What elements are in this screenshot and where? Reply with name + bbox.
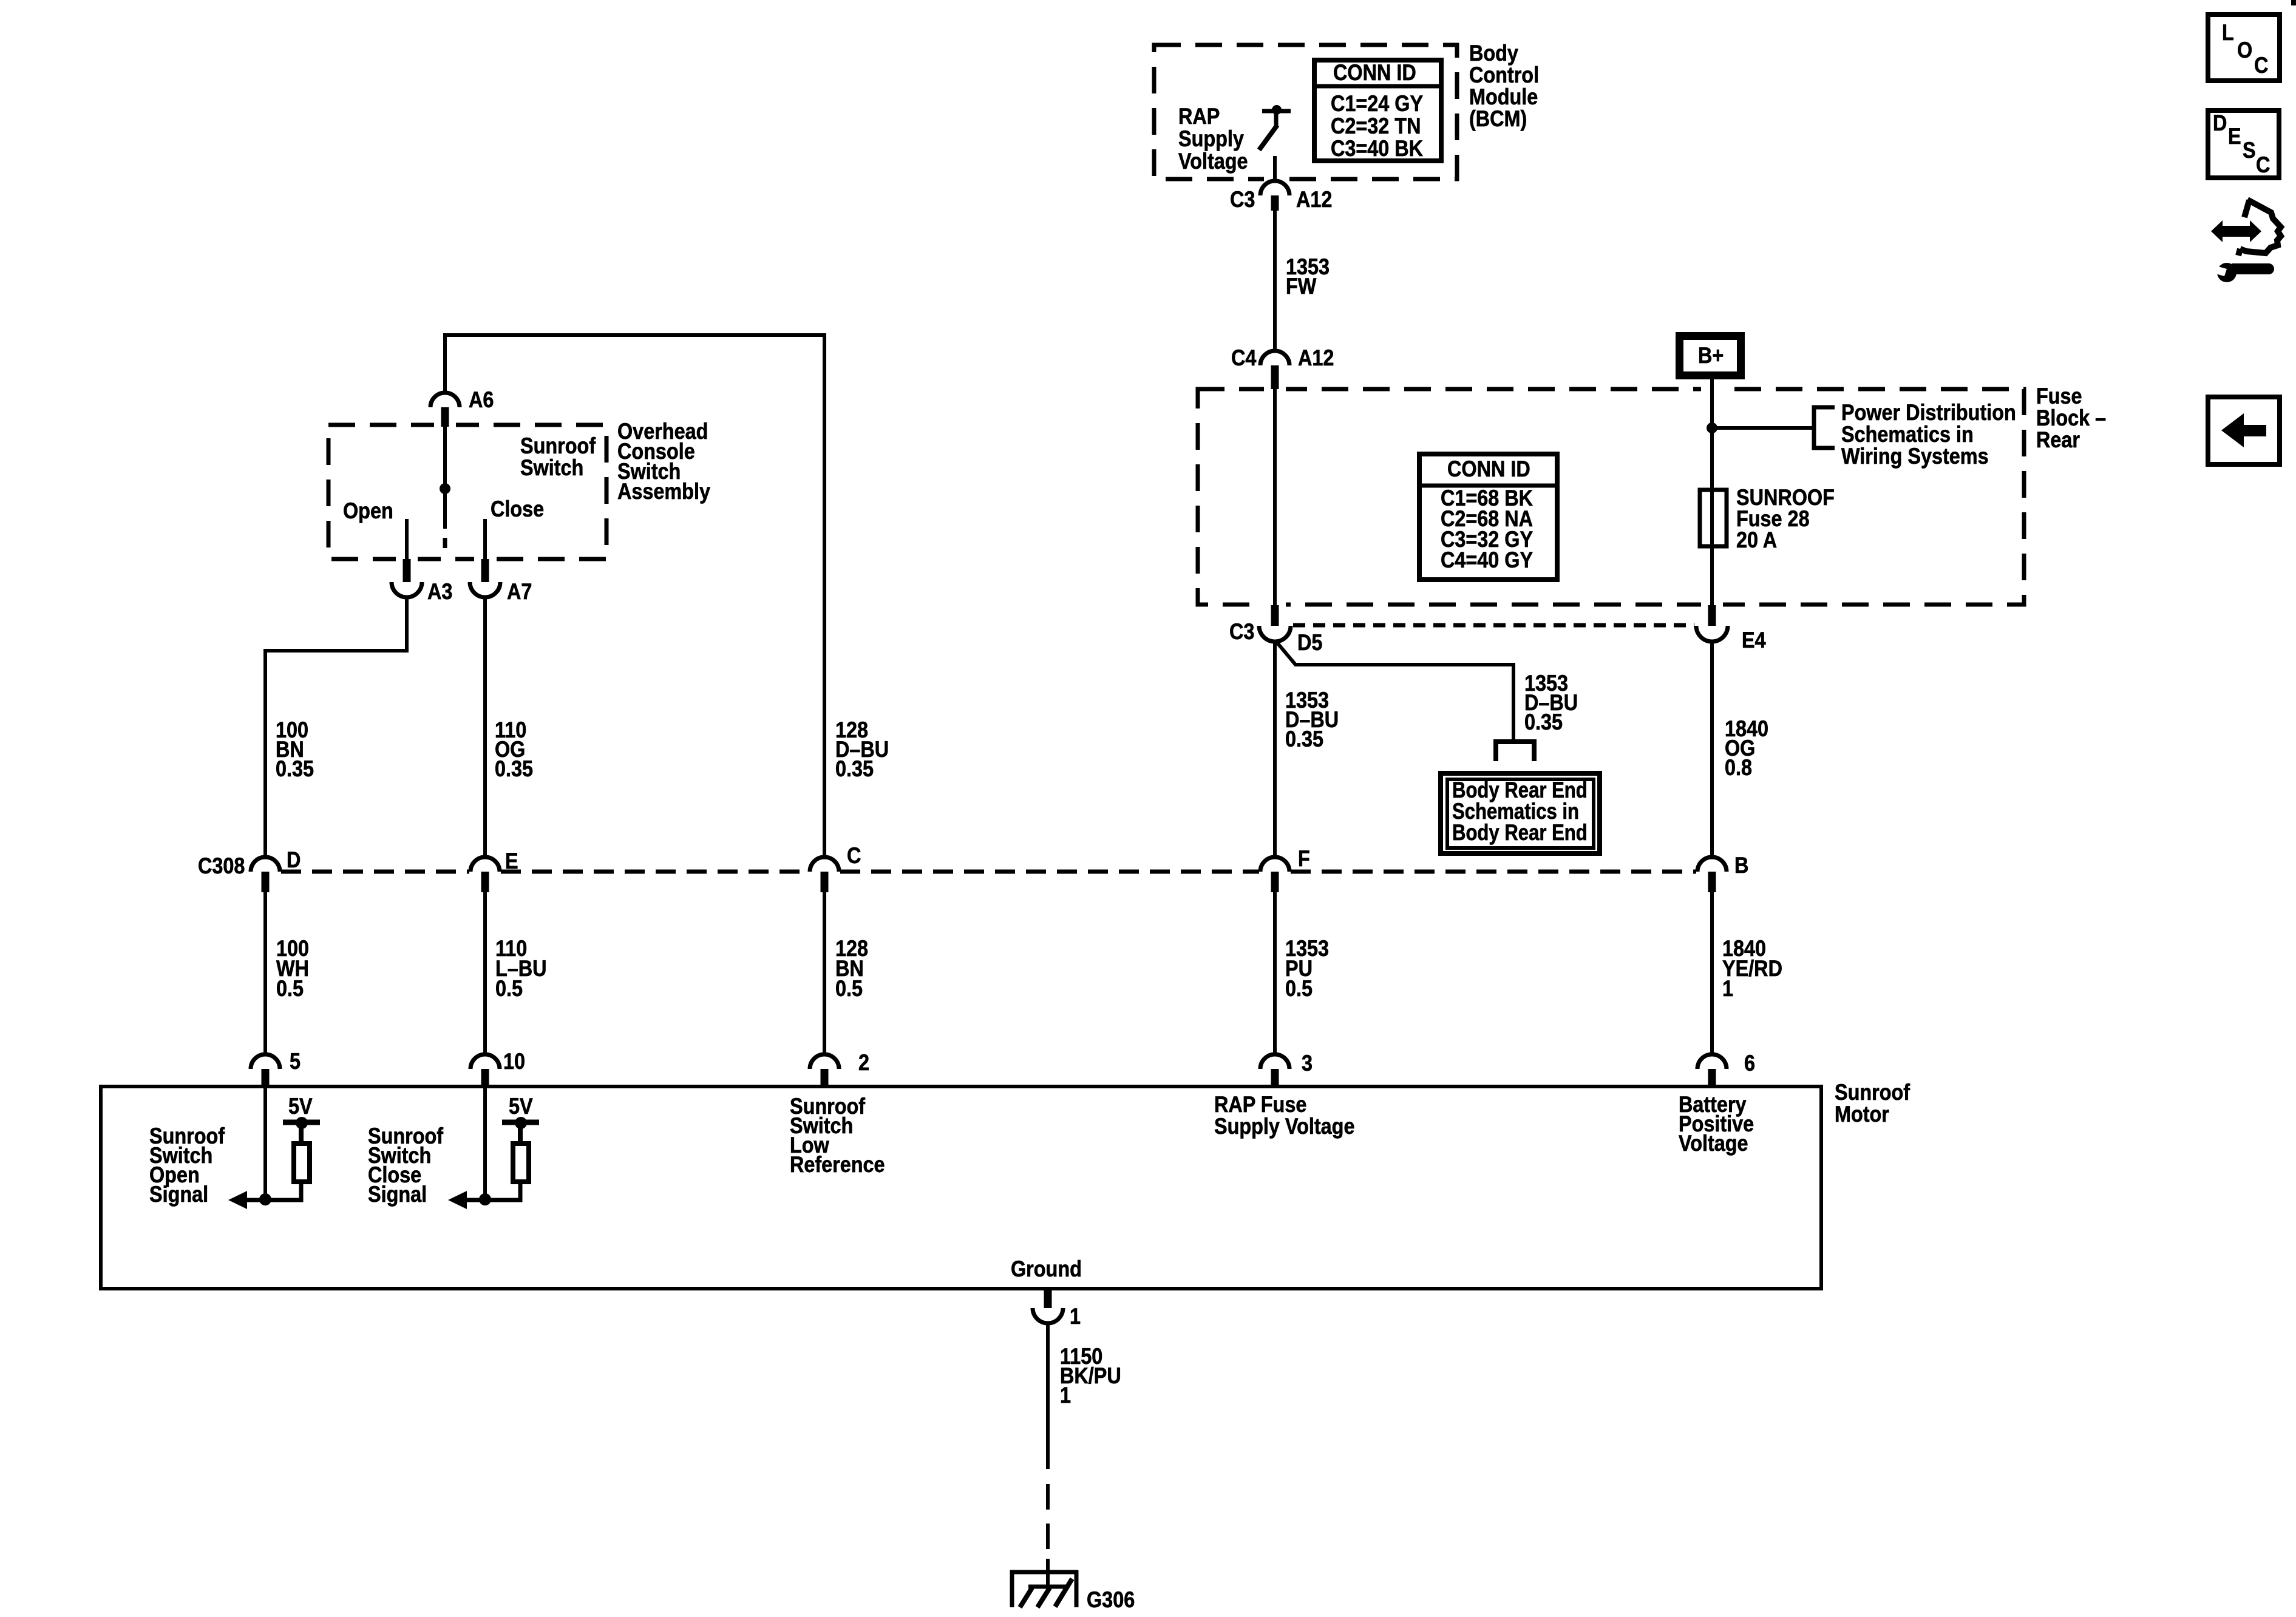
label A12 at BCM	[1296, 189, 1332, 209]
label C3 at fuse block bottom	[1229, 622, 1254, 642]
label wire 128 D-BU 0.35	[835, 720, 889, 779]
label 5V open	[288, 1096, 313, 1116]
open signal pull-up resistor R1	[294, 1144, 310, 1182]
white gap at BCM box edge crossing	[1264, 175, 1286, 183]
close signal pull-up wire	[485, 1181, 520, 1200]
label sunroof fuse 28 20A	[1736, 487, 1835, 551]
label wire 1353 D-BU 0.35	[1285, 691, 1339, 749]
wire C308 D to sunroof motor pin 5 (100 WH)	[263, 892, 267, 1054]
label wire 1353 PU 0.5	[1285, 938, 1329, 998]
connector A3	[403, 559, 411, 582]
label pin 3	[1302, 1053, 1313, 1073]
fuse block connector E4	[1708, 605, 1716, 626]
back arrow	[2221, 413, 2266, 447]
sunroof motor ground pin 1 connector	[1044, 1289, 1052, 1308]
label A3	[427, 581, 452, 602]
ground wire 1150 BK/PU solid part	[1046, 1323, 1050, 1469]
label overhead console switch assembly	[617, 421, 710, 501]
label A6	[469, 390, 494, 410]
wire fuse block D5 to C308 F (1353 D-BU)	[1273, 641, 1277, 856]
label body control module BCM	[1469, 42, 1539, 130]
DESC icon box	[2208, 110, 2279, 178]
label open	[343, 501, 393, 521]
label RAP fuse supply voltage	[1214, 1094, 1354, 1137]
label RAP supply voltage	[1178, 105, 1248, 172]
diagnostic tool icon double arrow	[2211, 220, 2261, 242]
fuse block - rear dashed box	[1198, 389, 2024, 605]
overhead console switch assembly dashed box	[328, 425, 606, 559]
label wire 1353 FW	[1286, 257, 1330, 296]
connector C308 dashed line	[281, 870, 469, 874]
label wire 100 WH 0.5	[276, 938, 309, 998]
wire fuse block E4 to C308 B (1840 OG)	[1710, 641, 1714, 856]
label cavity E	[505, 851, 518, 871]
power distribution reference bracket	[1814, 407, 1835, 448]
sunroof switch pivot dot	[440, 483, 450, 494]
net split symbol	[1496, 742, 1534, 761]
fuse 28 SUNROOF 20A	[1700, 490, 1727, 546]
label C4 at fuse block	[1231, 348, 1256, 368]
sunroof motor pin 3 connector	[1260, 1054, 1289, 1069]
B+ power feed box	[1680, 336, 1741, 376]
sunroof motor pin 5 connector	[251, 1054, 280, 1069]
C308 cavity B connector	[1697, 857, 1727, 872]
open signal arrow	[243, 1198, 265, 1202]
diagnostic tool icon car outline	[2244, 200, 2249, 217]
sunroof motor pin 2 connector	[810, 1054, 839, 1069]
open signal pull-up wire	[265, 1181, 301, 1200]
label body rear end schematics	[1452, 779, 1588, 843]
sunroof switch Close contact stub	[483, 519, 487, 559]
sunroof switch Open contact stub	[405, 519, 409, 559]
sunroof motor pin 10 connector	[470, 1054, 500, 1069]
C308 cavity E connector	[470, 857, 500, 872]
close signal 5V rail	[518, 1124, 523, 1144]
wire from sunroof switch A6 up and over to C308 cavity C (128 circuit)	[445, 335, 824, 856]
open signal 5V rail	[299, 1124, 304, 1144]
ground wire dashed part	[1046, 1484, 1050, 1510]
label cavity C	[847, 846, 861, 866]
C308 cavity C connector	[810, 857, 839, 872]
label sunroof switch	[520, 435, 596, 479]
label sunroof switch open signal	[149, 1127, 225, 1204]
close signal pull-up resistor R2	[513, 1144, 529, 1182]
label A12 at fuse block	[1298, 348, 1334, 368]
fuse block conn id header	[1447, 459, 1530, 479]
LOC icon letter O	[2237, 40, 2252, 60]
BCM connector C3 pin A12	[1260, 181, 1289, 195]
label battery positive voltage	[1679, 1095, 1754, 1153]
label pin 2	[858, 1053, 869, 1073]
back arrow icon box	[2208, 397, 2280, 464]
label sunroof switch low reference	[790, 1097, 885, 1175]
wire BCM A12 to fuse block C4 A12 (1353 FW)	[1273, 211, 1277, 351]
label D5	[1297, 632, 1322, 653]
fuse block C4 connector pin A12	[1260, 351, 1289, 365]
BCM conn id header	[1333, 63, 1416, 83]
label sunroof switch close signal	[368, 1127, 443, 1204]
DESC icon letter S	[2243, 140, 2256, 160]
BCM harness connector dotted line	[1293, 623, 1694, 628]
label pin 10	[503, 1051, 525, 1071]
label C3 at BCM	[1230, 189, 1255, 209]
label G306	[1087, 1590, 1135, 1610]
label C308	[198, 856, 245, 876]
white gaps at fuse block edge crossings	[1264, 385, 1286, 393]
label pin 6	[1744, 1053, 1755, 1073]
wire switch to BCM connector C3	[1273, 156, 1277, 181]
label wire 1150 BK/PU 1	[1060, 1347, 1121, 1405]
label wire 110 L-BU 0.5	[495, 938, 547, 998]
label ground	[1011, 1259, 1082, 1279]
wire C308 F to sunroof motor pin 3 (1353 PU)	[1273, 892, 1277, 1054]
DESC icon letter C	[2256, 155, 2270, 175]
label B+	[1698, 345, 1724, 365]
fuse block CONN ID table box	[1419, 454, 1557, 580]
RAP supply voltage switch dot	[1272, 105, 1282, 115]
sunroof motor box	[101, 1086, 1821, 1289]
wire C308 B to sunroof motor pin 6 (1840 YE/RD)	[1710, 892, 1714, 1054]
fuse block connector C3 cavity D5	[1271, 605, 1279, 626]
wire junction to power distribution reference	[1712, 426, 1814, 430]
label wire 128 BN 0.5	[835, 938, 868, 998]
label sunroof motor	[1835, 1082, 1910, 1125]
label fuse block - rear	[2036, 385, 2106, 451]
label cavity F	[1298, 849, 1310, 869]
close signal arrow	[463, 1198, 485, 1202]
diagnostic tool icon wrench	[2217, 263, 2237, 282]
C308 cavity F connector	[1260, 857, 1289, 872]
pin 5 junction dot	[259, 1193, 271, 1205]
pin 5 internal wire	[263, 1086, 267, 1199]
label power distribution schematics	[1841, 402, 2016, 467]
junction dot on B+ feed	[1707, 422, 1717, 433]
BCM conn id rows	[1331, 92, 1423, 160]
connector A6 (overhead console switch assembly)	[430, 393, 460, 407]
label 5V close	[509, 1096, 533, 1116]
sunroof switch blade dash (neutral position)	[443, 538, 447, 548]
label E4	[1742, 630, 1766, 650]
LOC icon box	[2208, 15, 2280, 81]
label wire 110 OG 0.35	[495, 720, 533, 779]
label cavity B	[1734, 855, 1748, 875]
DESC icon letter D	[2213, 113, 2227, 133]
wire inside fuse block 1353	[1273, 389, 1277, 605]
LOC icon letter C	[2254, 55, 2268, 75]
branch wire 1353 D-BU to body rear end	[1277, 642, 1513, 741]
label wire 1840 OG 0.8	[1725, 719, 1768, 778]
pin 10 internal wire	[483, 1086, 487, 1199]
open signal 5V dot	[296, 1117, 308, 1129]
label cavity D	[287, 850, 301, 870]
fuse block conn id rows	[1441, 488, 1533, 571]
wire B+ to fuse and connector E4	[1710, 379, 1714, 605]
sunroof switch common blade wire	[443, 427, 447, 529]
close signal 5V dot	[515, 1117, 527, 1129]
wire C308 E to sunroof motor pin 10 (110 L-BU)	[483, 892, 487, 1054]
page corner mark	[2291, 0, 2296, 5]
body rear end schematics reference box	[1441, 773, 1600, 853]
RAP supply voltage switch stub	[1274, 112, 1279, 126]
white gaps at switch box edge crossings	[434, 421, 456, 429]
RAP supply voltage switch blade	[1259, 125, 1277, 150]
sunroof motor pin 6 connector	[1697, 1054, 1727, 1069]
label pin 1	[1070, 1306, 1081, 1326]
ground G306 symbol	[1010, 1570, 1078, 1575]
RAP supply voltage switch bar	[1262, 109, 1291, 114]
label wire 1840 YE/RD 1	[1722, 938, 1782, 998]
label pin 5	[290, 1051, 301, 1071]
label A7	[507, 581, 532, 602]
pin 10 junction dot	[479, 1193, 491, 1205]
label wire 100 BN 0.35	[276, 720, 314, 779]
body control module dashed box	[1154, 45, 1457, 179]
label close	[491, 499, 544, 519]
C308 cavity D connector	[251, 857, 280, 872]
wire A3 to C308 cavity D (100 circuit)	[265, 597, 407, 856]
LOC icon letter L	[2222, 22, 2234, 42]
DESC icon letter E	[2228, 126, 2241, 146]
label branch wire 1353 D-BU 0.35	[1524, 674, 1578, 732]
connector A7	[481, 559, 489, 582]
BCM CONN ID table box	[1314, 60, 1441, 161]
wire C308 C to sunroof motor pin 2 (128 BN)	[823, 892, 826, 1054]
wire A7 to C308 cavity E (110 circuit)	[483, 597, 487, 856]
